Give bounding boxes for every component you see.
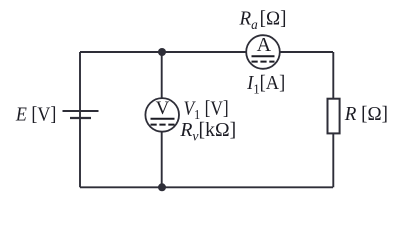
wire left vertical (through battery) (79, 52, 81, 187)
wire bottom (80, 186, 333, 188)
svg-text:E [V]: E [V] (15, 104, 56, 126)
svg-text:I1[A]: I1[A] (246, 72, 285, 96)
node: bottom junction dot (158, 183, 166, 191)
voltmeter V1 circle (145, 98, 179, 132)
svg-text:V: V (156, 98, 170, 119)
battery E: long plate (63, 110, 99, 112)
svg-text:A: A (257, 34, 272, 56)
svg-text:R [Ω]: R [Ω] (344, 104, 388, 126)
svg-text:Rv[kΩ]: Rv[kΩ] (179, 119, 236, 145)
svg-text:Ra[Ω]: Ra[Ω] (239, 8, 287, 32)
battery E: short plate (70, 117, 91, 119)
wire right vertical upper: corner to resistor (332, 52, 334, 99)
ammeter A circle (246, 35, 280, 69)
voltmeter DC symbol dashed line (151, 124, 175, 126)
node: top junction dot (158, 48, 166, 56)
wire top-mid: junction to ammeter left (162, 51, 247, 53)
ammeter DC symbol solid line (252, 55, 275, 57)
resistor R box (328, 99, 340, 134)
wire middle vertical upper: top junction to voltmeter (161, 52, 163, 99)
wire right vertical lower: resistor to bottom corner (332, 133, 334, 187)
wire middle vertical lower: voltmeter to bottom junction (161, 131, 163, 187)
wire top-right: ammeter right to top-right corner (279, 51, 333, 53)
voltmeter DC symbol solid line (151, 118, 175, 120)
wire top-left: left corner to top junction (80, 51, 162, 53)
ammeter DC symbol dashed line (252, 61, 275, 63)
